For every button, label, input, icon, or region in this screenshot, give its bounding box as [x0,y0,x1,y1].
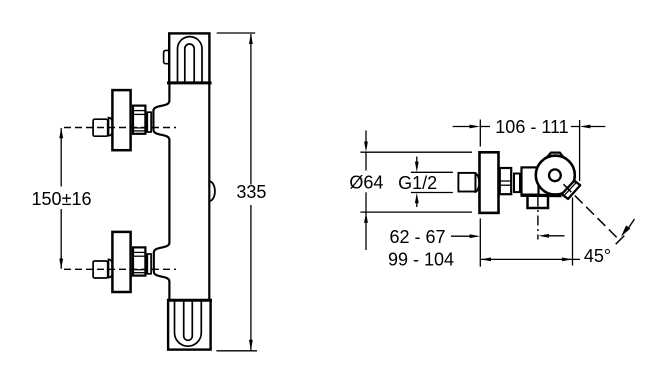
dim 99-104 left arrowhead [481,258,492,262]
dim 99-104 right extension line [572,198,574,266]
dim G1/2 top arrow [416,157,418,164]
dim 106-111 right arrowhead [580,125,591,129]
svg-text:150±16: 150±16 [32,189,92,209]
washer ring (top) [147,112,151,132]
bottom inlet dashed centerline [64,268,176,270]
dim 106-111 inner stub left [480,126,490,128]
45 degree dash-dot line [564,184,619,238]
svg-text:Ø64: Ø64 [349,172,383,192]
escutcheon flange (top) [112,90,130,150]
dim Ø64 top extension line [360,151,472,153]
45 degree pointer arrowhead [621,225,630,236]
dim Ø64 bottom arrow [365,223,367,250]
wall flange side view [480,152,499,213]
valve knob inner circle [549,169,561,181]
bottom outlet port [528,195,549,208]
nut chamfer lines [500,180,512,182]
side button bump on right edge [209,181,215,201]
union dome cap (bottom) [109,259,114,277]
bottom handle grip inner U [184,300,193,340]
union dome cap (top) [109,118,114,136]
dim Ø64 inner line upper segment [365,152,367,170]
dim G1/2 top extension line [411,171,453,173]
dimension 335 arrow down [249,340,253,351]
washer ring (bottom) [147,254,151,274]
top handle left tab [164,50,171,63]
dim 106-111 inner stub right [571,126,580,128]
escutcheon flange (bottom) [112,232,130,292]
dimension 150±16 vertical line lower segment [60,209,62,269]
dimension 335 bottom reference line [216,350,257,352]
dim G1/2 bottom extension line [411,192,453,194]
top handle grip inner arch [185,44,194,82]
dim Ø64 bottom extension line [360,211,472,213]
dim 62-67 right arrow line [547,235,565,237]
valve head circle [536,156,575,195]
dimension 150±16 arrow up [59,128,63,139]
top handle bottom line [167,81,212,84]
bottom port dash-dot centerline [537,197,539,240]
dim 62-67 right arrowhead [539,234,550,238]
top tab on valve head [548,153,563,157]
wall union square (bottom) [93,261,108,278]
connection nut (top) [133,106,145,134]
45 degree pointer arrow line [627,219,635,231]
dim 106-111 left extension line [479,120,481,147]
outlet collar inner chamfer line [564,182,577,196]
top inlet assembly [93,90,151,150]
top inlet dashed centerline [64,127,176,129]
svg-text:G1/2: G1/2 [398,173,437,193]
dim 99-104 right arrowhead [562,258,573,262]
dimension 335 arrow up [249,33,253,44]
dim Ø64 inner line lower segment [365,192,367,215]
nut chamfer lines (bottom) [132,251,146,253]
bottom handle grip outer U [175,300,202,346]
dim 62-67 left arrowhead [470,234,481,238]
svg-text:45°: 45° [584,246,611,266]
body left edge with two inlet bosses [153,83,169,300]
dimension 335 vertical line lower segment [250,205,252,350]
body bottom bar [521,194,562,197]
45 degree end tick [616,236,625,245]
bottom handle rectangle [168,300,211,349]
dim 99-104 left extension line [479,218,481,266]
angled shower outlet collar [562,181,581,199]
dim 62-67 left arrow line [451,235,471,237]
nut chamfer lines (top) [132,110,146,112]
bottom handle top line [167,299,212,302]
wall union square (top) [93,119,108,136]
dim 99-104 line [480,258,580,260]
connection nut (bottom) [133,247,145,275]
dimension 335 top reference line [217,32,256,34]
nut side view [500,168,511,194]
svg-text:99 - 104: 99 - 104 [388,250,454,270]
svg-text:106 - 111: 106 - 111 [495,117,568,137]
dimension 335 vertical line upper segment [250,34,252,185]
G1/2 connector stub [458,173,475,192]
svg-text:62 - 67: 62 - 67 [389,227,445,247]
valve neck [522,167,539,194]
dim 106-111 right extension line [579,120,581,181]
top handle grip outer arch [178,37,203,82]
connector dome cap [476,174,480,192]
dimension 150±16 arrow down [59,259,63,270]
dim 106-111 right arrow line [586,126,606,128]
dim 106-111 left arrowhead [470,125,481,129]
dim G1/2 bottom arrow [416,201,418,208]
dim Ø64 top arrow [365,131,367,144]
dim 106-111 left arrow line [453,126,471,128]
svg-text:335: 335 [236,182,266,202]
bottom inlet assembly [93,232,151,292]
ring side view [514,174,520,193]
top handle rectangle [169,33,209,82]
dimension 150±16 vertical line upper segment [60,128,62,187]
body right edge [208,83,210,300]
